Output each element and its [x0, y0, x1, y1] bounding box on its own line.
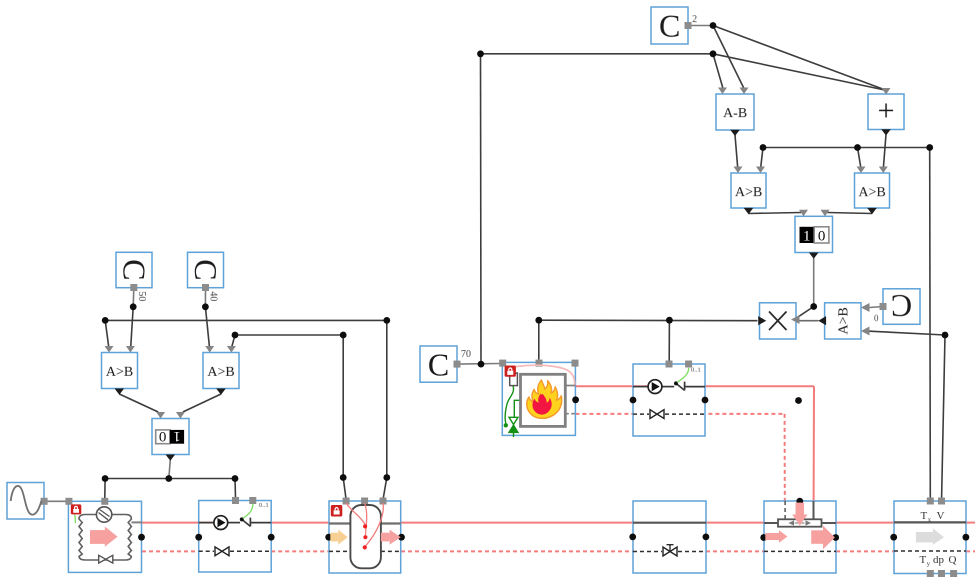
- svg-text:dp: dp: [933, 554, 945, 566]
- svg-text:2: 2: [692, 14, 697, 25]
- svg-text:A-B: A-B: [723, 106, 747, 121]
- svg-text:1: 1: [173, 428, 181, 444]
- svg-text:0..1: 0..1: [259, 502, 269, 509]
- svg-text:T: T: [921, 510, 928, 522]
- svg-text:+: +: [878, 94, 895, 127]
- svg-text:C: C: [428, 346, 449, 382]
- svg-text:70: 70: [461, 349, 471, 360]
- svg-text:C: C: [188, 259, 224, 280]
- svg-text:40: 40: [207, 291, 218, 301]
- svg-text:T: T: [919, 554, 926, 566]
- svg-text:Q: Q: [948, 554, 956, 566]
- svg-text:0: 0: [874, 313, 879, 323]
- svg-text:A>B: A>B: [836, 307, 851, 334]
- svg-text:C: C: [659, 8, 680, 44]
- svg-text:V: V: [937, 510, 945, 522]
- svg-text:1: 1: [803, 228, 811, 244]
- svg-text:C: C: [117, 259, 153, 280]
- svg-text:C: C: [891, 288, 912, 324]
- svg-text:A>B: A>B: [735, 185, 762, 200]
- svg-text:0: 0: [159, 428, 167, 444]
- svg-text:0..1: 0..1: [691, 367, 701, 374]
- svg-text:50: 50: [136, 291, 147, 301]
- svg-text:A>B: A>B: [207, 365, 234, 380]
- svg-text:0: 0: [818, 228, 826, 244]
- svg-text:A>B: A>B: [106, 365, 133, 380]
- svg-text:A>B: A>B: [858, 185, 885, 200]
